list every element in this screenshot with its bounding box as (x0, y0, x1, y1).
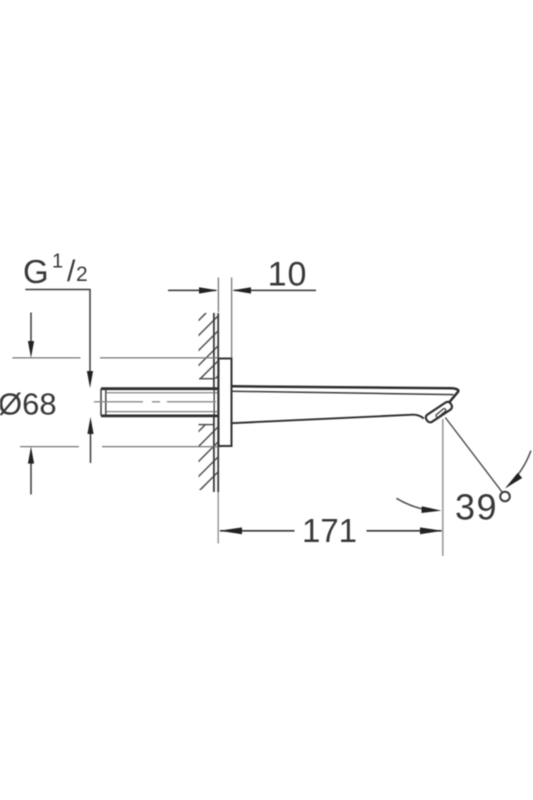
wall line back (213, 313, 215, 492)
pipe centerline (94, 401, 219, 403)
svg-text:1: 1 (52, 251, 63, 273)
svg-text:2: 2 (76, 263, 88, 286)
svg-text:/: / (67, 255, 76, 288)
G1/2 lower arrow (up, tip at pipe bottom) (87, 417, 93, 463)
dim 10 line left + arrow (168, 287, 218, 293)
aerator capsule (424, 401, 453, 424)
dim 10 extension line left (217, 278, 219, 313)
wall hatching upper (192, 294, 225, 402)
dia68 bottom extension line (20, 446, 221, 448)
dia68 top extension line (12, 357, 218, 359)
svg-text:39: 39 (455, 487, 498, 528)
spout bottom edge (232, 415, 424, 423)
angle arc right + arrow (507, 451, 531, 487)
dia68 top arrow (down) (28, 313, 34, 358)
angle arc left + arrow (396, 498, 433, 511)
wall hatch upper boundary (199, 378, 214, 380)
G1/2 leader arrow (down, tip at pipe top) (87, 371, 93, 388)
svg-text:171: 171 (302, 512, 357, 549)
dim 10 extension line right (231, 278, 233, 358)
pipe (G1/2 thread) body fill (101, 389, 214, 416)
G1/2 leader line (25, 290, 90, 373)
dim 10 line right + arrow (232, 287, 316, 293)
extension line from aerator down (171 right / angle vertical ref) (442, 419, 444, 556)
171 left extension line (below wall) (217, 492, 219, 544)
dia68 bottom arrow (up) (28, 447, 34, 495)
spout top edge (232, 386, 459, 407)
pipe top edge (101, 387, 219, 390)
171 dim line + arrows (219, 527, 442, 534)
39 deg angled line (445, 418, 502, 493)
wall hatch lower boundary (199, 424, 214, 426)
degree circle (500, 492, 510, 502)
flange (escutcheon) (219, 359, 232, 447)
pipe thread minor lines (106, 393, 218, 412)
svg-text:10: 10 (268, 256, 308, 294)
pipe left end (100, 389, 102, 416)
svg-text:Ø68: Ø68 (0, 387, 57, 422)
spout top inner line (232, 391, 454, 394)
wall line front (surface) (217, 313, 219, 492)
pipe chamfer line (105, 390, 107, 416)
wall hatching lower (192, 405, 225, 498)
svg-text:G: G (23, 253, 49, 290)
pipe bottom edge (101, 414, 219, 417)
